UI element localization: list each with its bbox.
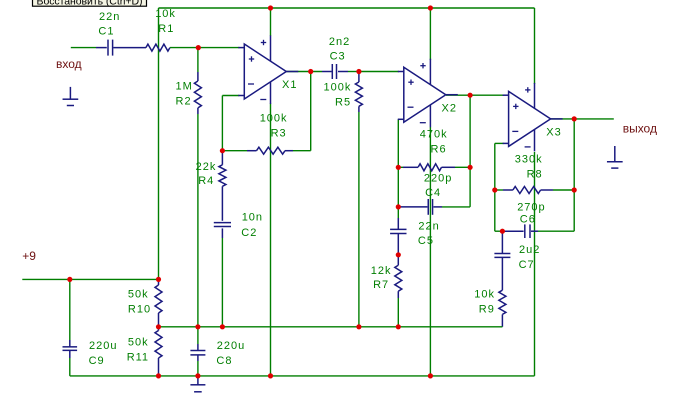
svg-text:R5: R5 <box>335 96 351 108</box>
svg-text:100k: 100k <box>260 113 288 125</box>
wire R9 to mid rail <box>501 314 503 326</box>
wire mid rail <box>159 326 503 328</box>
wire C2 to mid rail <box>221 228 223 326</box>
resistor R10 <box>155 285 162 313</box>
svg-text:X2: X2 <box>442 102 457 114</box>
svg-text:+9: +9 <box>22 249 36 263</box>
label R11 value <box>127 337 149 364</box>
resistor R9 <box>499 290 506 314</box>
wire C1 to R1 <box>113 47 146 49</box>
resistor R8 <box>513 187 541 194</box>
wire R3 right lead to feedback <box>285 150 311 152</box>
wire X3 inv node to C6 row <box>495 190 503 231</box>
svg-text:220u: 220u <box>217 340 245 352</box>
svg-text:50k: 50k <box>128 289 149 301</box>
svg-text:12k: 12k <box>371 265 392 277</box>
ground at input <box>63 87 79 106</box>
svg-text:22n: 22n <box>418 220 439 232</box>
wire C4 row left <box>398 206 427 208</box>
wire X2 out column down <box>469 95 471 207</box>
label R7 value <box>371 265 392 291</box>
wire C6 leads <box>502 230 574 232</box>
svg-text:C8: C8 <box>216 355 232 367</box>
wire C4 node to C5 <box>397 207 399 230</box>
wire R11 leads <box>158 327 160 376</box>
label C3 value <box>329 36 350 63</box>
svg-text:C1: C1 <box>98 26 114 38</box>
wire X3 out to output <box>551 118 614 120</box>
svg-text:R1: R1 <box>158 23 174 35</box>
capacitor C7 <box>494 253 510 257</box>
wire R7 to mid rail <box>397 291 399 327</box>
svg-text:100k: 100k <box>324 81 352 93</box>
svg-text:C2: C2 <box>241 227 257 239</box>
svg-text:вход: вход <box>56 57 82 71</box>
svg-text:Восстановить (Ctrl+D): Восстановить (Ctrl+D) <box>37 0 143 7</box>
wire R8 leads <box>495 189 574 191</box>
capacitor C4 <box>428 199 432 215</box>
wire X3 out column down <box>573 119 575 231</box>
wire node B to X2 +in <box>359 71 399 73</box>
svg-text:470k: 470k <box>420 129 448 141</box>
wire X1 inv feedback <box>222 96 239 151</box>
op-amp X1 <box>238 36 298 105</box>
wire bottom rail <box>70 375 535 377</box>
wire input to C1 <box>71 47 107 49</box>
wire C7 stem <box>501 231 503 253</box>
svg-text:10k: 10k <box>155 8 176 20</box>
resistor R2 <box>194 81 201 108</box>
label R9 value <box>474 289 495 316</box>
wire R1 to node A <box>170 47 198 49</box>
svg-text:C6: C6 <box>520 214 536 226</box>
svg-text:R7: R7 <box>373 279 389 291</box>
wire C3 to node B <box>338 71 359 73</box>
label C8 value <box>216 340 245 367</box>
wire X2 V+ supply <box>429 8 431 60</box>
svg-text:C9: C9 <box>89 355 105 367</box>
svg-text:22n: 22n <box>99 11 120 23</box>
resistor R5 <box>355 82 362 106</box>
svg-text:2n2: 2n2 <box>329 36 350 48</box>
svg-text:C7: C7 <box>519 259 535 271</box>
svg-text:R2: R2 <box>176 96 192 108</box>
svg-text:2u2: 2u2 <box>519 244 540 256</box>
wire X1 out to C3 <box>286 71 331 73</box>
capacitor C6 <box>525 224 530 238</box>
label C1 value <box>98 11 120 38</box>
svg-text:выход: выход <box>623 122 657 136</box>
wire C5 to R7 node <box>397 233 399 265</box>
capacitor C1 <box>108 40 113 56</box>
wire R2 to mid rail <box>197 108 199 327</box>
resistor R7 <box>395 265 402 291</box>
svg-text:220p: 220p <box>424 173 452 185</box>
wire R6 leads <box>398 166 470 168</box>
wire node A down to R2 <box>197 48 199 81</box>
label C4 value <box>424 173 452 200</box>
wire left rail <box>158 8 160 279</box>
label R8 value <box>515 153 543 180</box>
wire X3 inv down <box>495 143 504 190</box>
wire node A to X1 +in <box>198 47 239 49</box>
svg-text:R3: R3 <box>271 128 287 140</box>
resistor R3 <box>257 147 286 154</box>
wire R10 leads <box>158 279 160 326</box>
svg-text:R9: R9 <box>479 303 495 315</box>
wire plus9 row <box>22 278 158 280</box>
svg-text:R6: R6 <box>431 143 447 155</box>
svg-text:C5: C5 <box>418 235 434 247</box>
svg-text:C4: C4 <box>425 187 441 199</box>
svg-text:R8: R8 <box>527 168 543 180</box>
svg-text:10k: 10k <box>474 289 495 301</box>
svg-text:C3: C3 <box>330 51 346 63</box>
wire X1 out node down <box>310 72 312 151</box>
capacitor C9 <box>63 347 78 351</box>
label input <box>56 57 82 71</box>
wire C9 bottom stem <box>69 350 71 376</box>
svg-text:1M: 1M <box>176 81 193 93</box>
capacitor C3 <box>332 64 336 79</box>
wire X2 inv down <box>397 119 400 167</box>
ground at output <box>607 146 623 168</box>
ground below C8 <box>190 376 205 392</box>
wire X2 out to X3 +in <box>446 94 504 96</box>
label C5 value <box>418 220 440 247</box>
capacitor C5 <box>390 229 406 233</box>
op-amp X3 <box>503 83 563 151</box>
label R5 value <box>324 81 352 108</box>
wire X1 V+ supply <box>270 8 272 36</box>
svg-text:X1: X1 <box>282 79 297 91</box>
label R2 value <box>176 81 193 108</box>
svg-text:270p: 270p <box>517 201 545 213</box>
wire R5 top lead <box>358 72 360 83</box>
label C9 value <box>89 340 118 367</box>
label C2 value <box>241 212 263 239</box>
svg-text:330k: 330k <box>515 153 543 165</box>
wire X2 inv node to C4 row <box>397 167 399 207</box>
capacitor C2 <box>214 223 231 227</box>
svg-text:10n: 10n <box>242 212 263 224</box>
wire top +9 rail <box>159 7 535 9</box>
wire R3 left to node C <box>222 150 256 152</box>
resistor R11 <box>155 331 162 359</box>
wire R4 to C2 <box>221 151 223 221</box>
label +9 <box>22 249 36 263</box>
svg-text:R4: R4 <box>198 175 214 187</box>
wire C4 to X2 out column <box>433 206 470 208</box>
svg-text:50k: 50k <box>128 337 149 349</box>
wire X3 V+ supply <box>534 8 536 84</box>
label R4 value <box>196 161 217 187</box>
svg-text:220u: 220u <box>89 340 117 352</box>
label R10 value <box>128 289 151 316</box>
op-amp X2 <box>398 59 458 128</box>
label C7 value <box>519 244 541 271</box>
svg-text:22k: 22k <box>196 161 217 173</box>
wire C8 stems <box>197 327 199 376</box>
label R3 value <box>260 113 288 140</box>
label R6 value <box>420 129 448 156</box>
svg-text:R11: R11 <box>127 352 149 364</box>
label C6 value <box>517 201 545 225</box>
wire X1 V- to bottom rail <box>270 104 272 376</box>
resistor R6 <box>418 164 441 171</box>
wire X2 V- to bottom rail <box>429 127 431 376</box>
capacitor C8 <box>190 351 205 355</box>
svg-text:X3: X3 <box>546 127 561 139</box>
resistor R1 <box>146 44 170 51</box>
label output <box>623 122 657 136</box>
tooltip box (clipped at window top) <box>33 0 147 7</box>
svg-text:R10: R10 <box>128 304 151 316</box>
wire X3 V- to bottom rail <box>534 152 536 376</box>
label R1 value <box>155 8 176 35</box>
wire R5 to mid rail <box>358 106 360 326</box>
wire C9 top stem <box>69 279 71 347</box>
resistor R4 <box>219 165 226 187</box>
wire C7 to R9 <box>501 257 503 290</box>
